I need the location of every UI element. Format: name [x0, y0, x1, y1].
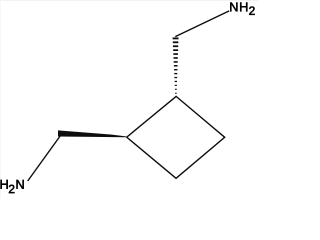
- subscript 2 of H2N: [9, 185, 14, 193]
- cyclobutane ring: [127, 96, 225, 178]
- bond CH2-NH2 (bottom left): [28, 136, 61, 182]
- amine label NH2 (top right): [230, 3, 254, 15]
- letter N of H2N: [17, 180, 24, 189]
- bond CH2-NH2 (top right): [175, 11, 229, 37]
- letter H of H2N: [1, 180, 8, 189]
- faint top border: [0, 0, 258, 1]
- solid wedge bond (ring C to CH2, bottom left): [58, 130, 126, 137]
- amine label H2N (bottom left): [1, 180, 24, 193]
- subscript 2 of NH2: [249, 6, 254, 14]
- letter N of NH2: [230, 3, 237, 12]
- hashed wedge bond (ring C to CH2, top): [173, 37, 179, 93]
- letter H of NH2: [240, 3, 247, 12]
